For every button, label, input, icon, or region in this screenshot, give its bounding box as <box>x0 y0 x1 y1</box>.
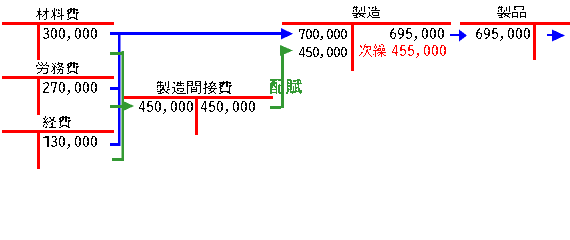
wire green stub from 労務費 <box>110 105 122 108</box>
account 製造 top bar <box>282 22 451 25</box>
account 製造 label <box>352 6 380 18</box>
value 695,000 (製造 credit) <box>390 28 444 41</box>
arrowhead blue output <box>552 30 565 42</box>
account 製造間接費 label <box>157 81 232 94</box>
value 130,000 (経費 debit) <box>43 136 97 149</box>
wire green vertical collector <box>122 51 125 161</box>
account 製造間接費 top bar <box>124 96 273 99</box>
wire green stub from 経費 <box>112 158 122 161</box>
account 材料費 top bar <box>2 22 114 25</box>
account 経費 top bar <box>2 130 114 133</box>
wire blue vertical collector <box>118 32 121 146</box>
account 製造間接費 divider leg <box>195 96 198 135</box>
arrowhead green into 製造 450,000 <box>280 45 293 56</box>
account 労務費 label <box>36 62 79 74</box>
wire blue shaft 695,000 to 製品 <box>450 34 459 36</box>
account 労務費 divider leg <box>37 76 40 115</box>
arrowhead blue into 製造 700,000 <box>281 28 293 40</box>
account 経費 divider leg <box>37 130 40 169</box>
account 製品 divider leg <box>533 22 536 60</box>
value 700,000 (製造 debit) <box>299 29 347 40</box>
value 300,000 (材料費 debit) <box>43 28 97 41</box>
value 695,000 (製品 debit) <box>476 28 530 41</box>
wire green vertical riser <box>281 50 284 108</box>
arrowhead blue into 製品 695,000 <box>459 30 467 42</box>
account 労務費 top bar <box>2 76 114 79</box>
value 450,000 (製造間接費 debit) <box>139 101 193 114</box>
value 455,000 (次繰, red) <box>392 45 446 58</box>
wire blue stub from 労務費 <box>110 87 118 90</box>
wire green stub from 製造間接費 credit <box>270 106 281 109</box>
account 経費 label <box>43 116 71 128</box>
account 材料費 label <box>36 8 79 20</box>
account 製品 label <box>497 6 526 18</box>
value 270,000 (労務費 debit) <box>43 82 97 95</box>
label 配賦 (green bold) <box>270 79 302 94</box>
account 製品 top bar <box>460 22 570 25</box>
value 450,000 (製造間接費 credit) <box>201 101 255 114</box>
wire green stub from 材料費 <box>110 52 122 55</box>
account 製造 divider leg <box>351 22 354 71</box>
value 450,000 (製造 debit, allocated) <box>299 47 347 58</box>
account 材料費 divider leg <box>37 22 40 60</box>
wire blue shaft out of 製品 <box>547 34 553 36</box>
wire blue horizontal to 製造 <box>120 32 281 35</box>
label 次繰 (red) <box>359 44 386 57</box>
wire blue stub from 経費 <box>110 143 118 146</box>
wire blue stub from 材料費 <box>110 32 118 35</box>
arrowhead green into 製造間接費 450,000 <box>122 101 134 112</box>
